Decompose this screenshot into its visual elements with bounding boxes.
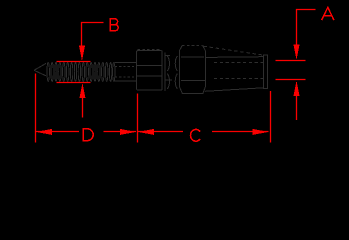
A top arrow (down) xyxy=(294,45,300,61)
part outline group (dark gray) xyxy=(34,46,267,94)
D right arrow xyxy=(120,129,136,135)
shank xyxy=(115,63,137,81)
A top extension line xyxy=(276,60,306,62)
hex2 facet lines xyxy=(181,57,206,80)
A bottom arrow stem xyxy=(296,95,298,120)
label D xyxy=(83,129,93,141)
cone tip xyxy=(34,63,46,75)
C dimension line left segment xyxy=(138,131,183,133)
threads xyxy=(47,62,115,81)
D dimension line right segment xyxy=(104,131,137,133)
A bottom extension line xyxy=(276,79,306,81)
label B xyxy=(110,19,118,31)
nose top hidden chamfer line xyxy=(204,46,263,55)
D-C shared extension line xyxy=(137,94,139,143)
B leader bracket xyxy=(82,23,104,47)
tapered nose xyxy=(205,57,263,92)
nose hidden bore lines xyxy=(214,63,263,79)
label A xyxy=(322,7,334,19)
D dimension line left segment xyxy=(36,131,79,133)
hex2 block outline xyxy=(179,46,205,94)
A leader bracket xyxy=(297,10,316,46)
washer collar xyxy=(165,52,172,91)
B bottom arrow stem xyxy=(82,97,84,118)
red dimension group xyxy=(36,10,316,143)
D left extension line xyxy=(35,74,37,143)
B bottom arrow (up) xyxy=(80,83,86,98)
hex1 top hidden ridge xyxy=(138,48,162,50)
B bottom extension line xyxy=(57,82,91,84)
label C xyxy=(190,129,199,141)
hex1 block xyxy=(137,51,163,90)
B top arrow (down) xyxy=(79,46,85,61)
washer chamfer arcs xyxy=(167,56,177,89)
hex2 top hidden ridge xyxy=(182,45,203,47)
C dimension line right segment xyxy=(212,131,269,133)
A bottom arrow (up) xyxy=(294,81,300,97)
hex1 facet lines xyxy=(137,66,163,77)
D left arrow xyxy=(36,129,52,135)
B top extension line xyxy=(57,61,91,63)
nose end ring xyxy=(263,55,267,89)
shank hidden bore lines xyxy=(115,66,137,77)
C right arrow xyxy=(253,129,269,135)
C right extension line xyxy=(270,91,272,143)
C left arrow xyxy=(138,129,154,135)
